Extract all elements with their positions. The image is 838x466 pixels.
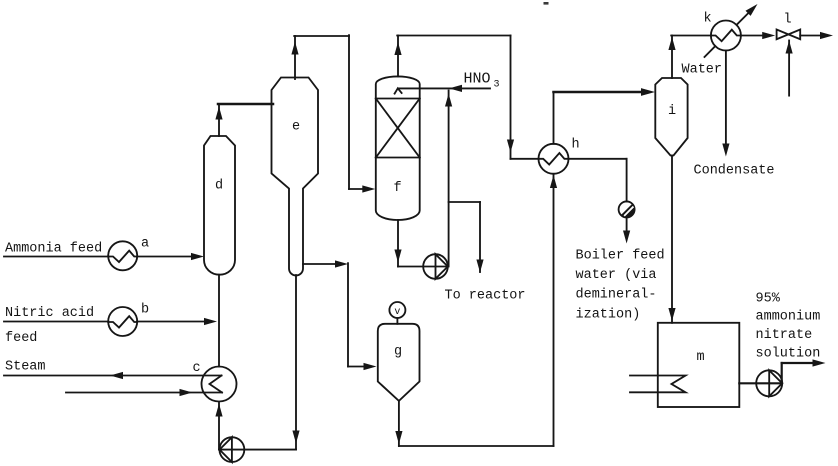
svg-text:Nitric acid: Nitric acid	[5, 306, 94, 321]
wire ammonia feed line	[4, 256, 108, 258]
wire product line with arrow	[781, 363, 783, 383]
heat exchanger h	[539, 144, 569, 174]
heat exchanger a	[108, 241, 137, 270]
wire d bottom to c	[218, 275, 220, 367]
svg-text:m: m	[696, 350, 704, 365]
svg-text:water (via: water (via	[576, 268, 657, 283]
speck artifact top centre	[544, 2, 549, 5]
wire i top to k	[671, 36, 673, 79]
pump p3	[756, 370, 782, 396]
heat exchanger k	[711, 21, 741, 51]
wire f bottom to pump p1	[397, 220, 399, 267]
wire m outlet to pump p3	[739, 382, 782, 384]
svg-text:e: e	[292, 120, 300, 135]
svg-text:ization): ization)	[576, 308, 641, 323]
svg-text:Water: Water	[682, 63, 723, 78]
wire k vent diagonal arrow	[737, 11, 751, 25]
vessel d	[204, 136, 235, 275]
svg-text:demineral-: demineral-	[576, 288, 657, 303]
svg-text:h: h	[572, 138, 580, 153]
svg-text:solution: solution	[756, 347, 821, 362]
wire i bottom to m	[671, 156, 673, 323]
svg-text:f: f	[393, 181, 401, 196]
svg-text:HNO: HNO	[464, 71, 491, 88]
heat exchanger c	[202, 367, 237, 402]
wire BFW valve outlet arrow	[626, 217, 628, 231]
wire c bottom pump riser	[218, 403, 220, 450]
svg-text:feed: feed	[5, 331, 37, 346]
svg-text:i: i	[668, 104, 676, 119]
vessel e	[272, 78, 319, 276]
wire nitric acid feed line	[4, 321, 108, 323]
svg-text:g: g	[394, 345, 402, 360]
wire f top line to h	[397, 36, 399, 77]
svg-text:d: d	[215, 179, 223, 194]
BFW reducing valve	[619, 201, 635, 217]
wire e bottoms down line	[295, 275, 297, 450]
svg-text:Boiler feed: Boiler feed	[576, 249, 665, 264]
svg-text:nitrate: nitrate	[756, 328, 813, 343]
heating coil of m	[630, 376, 686, 393]
instrument v circle	[389, 302, 405, 318]
vessel i	[655, 78, 687, 156]
wire water label pointer	[705, 46, 716, 57]
wire d top to e	[218, 104, 220, 136]
wire v stem	[396, 318, 398, 324]
vessel m	[658, 323, 740, 407]
wire h top to vessel i	[553, 92, 555, 144]
wire HNO3 feed line	[399, 87, 490, 89]
vessel g	[378, 324, 420, 401]
wire k to valve l	[741, 35, 764, 37]
wire steam in line (arrow right)	[66, 392, 222, 394]
svg-text:b: b	[141, 303, 149, 318]
valve l	[777, 30, 801, 40]
pump p1	[423, 254, 448, 279]
svg-text:k: k	[704, 12, 712, 27]
wire valve l outlet arrow	[800, 35, 821, 37]
svg-text:3: 3	[494, 80, 500, 91]
wire h right to BFW valve	[569, 158, 627, 160]
wire p1 riser to HNO3 junction	[448, 91, 450, 267]
svg-text:To reactor: To reactor	[445, 289, 526, 304]
svg-text:95%: 95%	[756, 292, 781, 307]
svg-text:v: v	[394, 307, 400, 318]
wire e top line to f	[294, 36, 296, 79]
vessel f	[376, 76, 420, 220]
svg-text:l: l	[784, 13, 792, 28]
svg-text:Condensate: Condensate	[694, 164, 775, 179]
wire g bottom to h bottom	[398, 401, 400, 446]
wire k bottom condensate arrow	[725, 51, 727, 145]
svg-text:Ammonia feed: Ammonia feed	[5, 242, 102, 257]
svg-text:c: c	[193, 361, 201, 376]
packed bed X section of f	[376, 98, 420, 100]
svg-text:ammonium: ammonium	[756, 310, 821, 325]
wire steam out line (arrow left)	[4, 375, 222, 377]
wire valve l bottom stem	[788, 41, 790, 96]
svg-text:a: a	[141, 237, 149, 252]
heat exchanger b	[108, 307, 137, 336]
wire pump p2 suction line	[219, 449, 296, 451]
wire to-reactor branch	[449, 201, 480, 203]
wire e neck to g	[303, 263, 337, 265]
pump p2	[220, 437, 245, 462]
svg-text:Steam: Steam	[5, 360, 46, 375]
